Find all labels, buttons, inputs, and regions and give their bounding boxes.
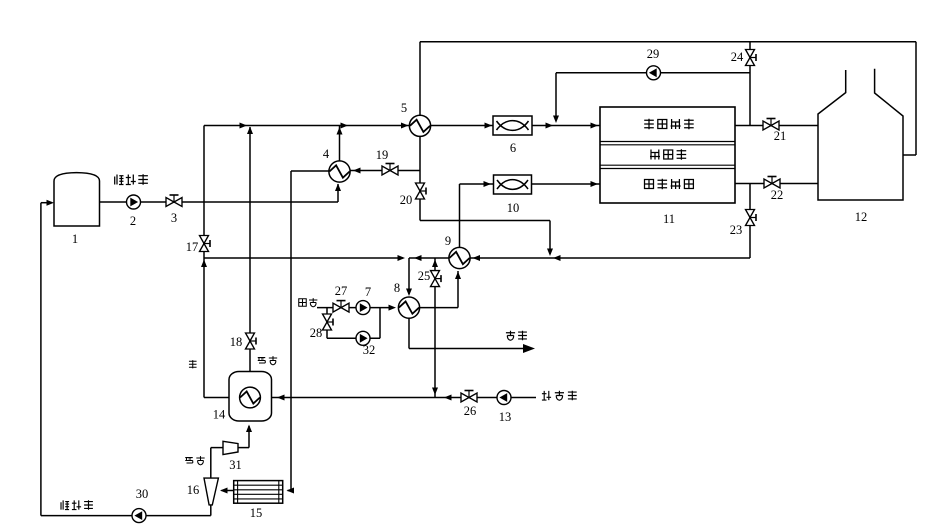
label 27 bbox=[335, 284, 348, 298]
svg-text:1: 1 bbox=[72, 232, 78, 246]
label air bbox=[299, 298, 318, 307]
wire bbox=[238, 447, 249, 449]
heat exchanger 9 bbox=[449, 247, 470, 268]
pump 29 bbox=[647, 66, 661, 80]
wire bbox=[749, 184, 751, 259]
wire bbox=[547, 221, 553, 257]
wire bbox=[337, 126, 343, 161]
heat exchanger in tank 14 bbox=[240, 387, 261, 408]
valve 22 bbox=[764, 177, 780, 189]
svg-text:26: 26 bbox=[464, 404, 477, 418]
valve 17 bbox=[200, 236, 211, 252]
svg-text:24: 24 bbox=[731, 50, 744, 64]
label fuel-electrode bbox=[644, 119, 694, 129]
wire bbox=[204, 255, 405, 261]
arrow bbox=[389, 305, 397, 311]
label 5 bbox=[401, 101, 407, 115]
svg-text:14: 14 bbox=[213, 408, 226, 422]
valve 25 bbox=[431, 271, 442, 287]
wire bbox=[220, 488, 234, 494]
arrow bbox=[341, 123, 349, 129]
label 23 bbox=[730, 223, 743, 237]
label 9 bbox=[445, 234, 451, 248]
wire bbox=[41, 200, 54, 206]
svg-text:22: 22 bbox=[771, 188, 784, 202]
wire bbox=[335, 184, 341, 203]
svg-text:21: 21 bbox=[774, 129, 787, 143]
svg-text:32: 32 bbox=[363, 343, 376, 357]
arrow bbox=[591, 181, 599, 187]
label 31 bbox=[229, 458, 242, 472]
valve 3 bbox=[166, 195, 182, 207]
pump 30 bbox=[132, 509, 146, 523]
fuel cell 11 bbox=[600, 107, 735, 203]
svg-text:25: 25 bbox=[418, 269, 431, 283]
humidifier 10 bbox=[494, 175, 532, 194]
valve 23 bbox=[746, 210, 757, 226]
valve 20 bbox=[416, 183, 427, 199]
wire bbox=[419, 271, 461, 308]
label 25 bbox=[418, 269, 431, 283]
label circulating-water-top bbox=[115, 174, 148, 184]
wire bbox=[210, 505, 212, 516]
wire bbox=[419, 42, 421, 115]
heat exchanger 8 bbox=[398, 297, 419, 318]
wire bbox=[735, 183, 818, 185]
heat exchanger 5 bbox=[409, 115, 430, 136]
arrow bbox=[473, 255, 481, 261]
wire bbox=[735, 125, 818, 127]
arrow bbox=[401, 123, 409, 129]
label 16 bbox=[187, 483, 200, 497]
wire bbox=[532, 183, 601, 185]
svg-text:29: 29 bbox=[647, 47, 660, 61]
compressor 31 bbox=[223, 441, 238, 454]
arrow bbox=[240, 123, 248, 129]
label 18 bbox=[230, 335, 243, 349]
label 15 bbox=[250, 506, 263, 520]
label exhaust bbox=[506, 331, 527, 341]
svg-text:17: 17 bbox=[186, 240, 199, 254]
wire bbox=[419, 137, 421, 221]
label 17 bbox=[186, 240, 199, 254]
pump 2 bbox=[127, 195, 141, 209]
hydrogen tank 14 bbox=[229, 372, 272, 422]
svg-text:19: 19 bbox=[376, 148, 389, 162]
wire bbox=[420, 41, 916, 43]
pump 32 bbox=[356, 331, 370, 345]
svg-text:10: 10 bbox=[507, 201, 520, 215]
label 30 bbox=[136, 487, 149, 501]
wire bbox=[420, 220, 550, 222]
wire bbox=[290, 171, 292, 491]
svg-text:15: 15 bbox=[250, 506, 263, 520]
wire bbox=[326, 308, 328, 339]
wire bbox=[408, 318, 410, 349]
arrow bbox=[432, 388, 438, 396]
label 22 bbox=[771, 188, 784, 202]
label air-electrode bbox=[645, 179, 694, 189]
wire bbox=[204, 397, 229, 399]
wire bbox=[210, 448, 212, 479]
wire bbox=[749, 42, 751, 126]
svg-text:20: 20 bbox=[400, 193, 413, 207]
wire bbox=[327, 337, 380, 339]
tank 1 bbox=[54, 173, 100, 226]
wire bbox=[409, 257, 750, 259]
label 24 bbox=[731, 50, 744, 64]
label 13 bbox=[499, 410, 512, 424]
label electrolyte bbox=[650, 149, 686, 159]
arrow bbox=[277, 395, 285, 401]
wire bbox=[204, 125, 600, 127]
label 32 bbox=[363, 343, 376, 357]
wire bbox=[434, 258, 436, 398]
svg-text:2: 2 bbox=[130, 214, 136, 228]
label hydrogen-bottom bbox=[185, 456, 204, 465]
label 12 bbox=[855, 210, 868, 224]
wire bbox=[247, 127, 253, 372]
label 10 bbox=[507, 201, 520, 215]
svg-text:4: 4 bbox=[323, 147, 330, 161]
svg-text:5: 5 bbox=[401, 101, 407, 115]
arrow bbox=[485, 123, 493, 129]
label 3 bbox=[171, 211, 177, 225]
label 29 bbox=[647, 47, 660, 61]
arrow bbox=[444, 395, 452, 401]
svg-text:16: 16 bbox=[187, 483, 200, 497]
valve 19 bbox=[382, 164, 398, 176]
label makeup-water bbox=[542, 391, 577, 401]
label 7 bbox=[365, 285, 371, 299]
label hydrogen-top bbox=[258, 356, 277, 365]
svg-text:28: 28 bbox=[310, 326, 323, 340]
label 4 bbox=[323, 147, 330, 161]
wire bbox=[406, 258, 412, 296]
wire bbox=[100, 201, 339, 203]
label 6 bbox=[510, 141, 516, 155]
wire bbox=[556, 72, 750, 74]
svg-text:7: 7 bbox=[365, 285, 371, 299]
wire bbox=[40, 203, 42, 516]
svg-text:8: 8 bbox=[394, 281, 400, 295]
svg-text:18: 18 bbox=[230, 335, 243, 349]
valve 18 bbox=[246, 333, 257, 349]
wire bbox=[317, 307, 393, 309]
separator 16 bbox=[204, 478, 218, 505]
wire bbox=[246, 425, 252, 448]
wire bbox=[41, 515, 211, 517]
wire bbox=[379, 308, 381, 339]
label 28 bbox=[310, 326, 323, 340]
label water bbox=[189, 360, 197, 368]
svg-text:23: 23 bbox=[730, 223, 743, 237]
svg-text:13: 13 bbox=[499, 410, 512, 424]
svg-text:31: 31 bbox=[229, 458, 242, 472]
arrow bbox=[201, 260, 207, 268]
label 21 bbox=[774, 129, 787, 143]
valve 26 bbox=[461, 391, 477, 403]
wire bbox=[903, 154, 916, 156]
svg-text:11: 11 bbox=[663, 212, 675, 226]
label 8 bbox=[394, 281, 400, 295]
label circulating-water-bottom bbox=[61, 500, 93, 510]
label 11 bbox=[663, 212, 675, 226]
svg-text:30: 30 bbox=[136, 487, 149, 501]
valve 27 bbox=[333, 301, 349, 313]
pump 13 bbox=[497, 391, 511, 405]
svg-text:12: 12 bbox=[855, 210, 868, 224]
wire bbox=[272, 397, 536, 399]
wire bbox=[291, 170, 329, 172]
combustor 12 bbox=[818, 69, 903, 200]
svg-text:3: 3 bbox=[171, 211, 177, 225]
label 20 bbox=[400, 193, 413, 207]
wire bbox=[211, 447, 223, 449]
wire bbox=[350, 168, 420, 174]
arrow bbox=[484, 181, 492, 187]
arrow bbox=[553, 255, 561, 261]
label 2 bbox=[130, 214, 136, 228]
label 1 bbox=[72, 232, 78, 246]
wire bbox=[459, 184, 461, 248]
arrow bbox=[432, 260, 438, 268]
wire bbox=[203, 126, 205, 398]
arrow bbox=[591, 123, 599, 129]
label 26 bbox=[464, 404, 477, 418]
arrow bbox=[523, 344, 535, 353]
valve 28 bbox=[323, 314, 334, 330]
svg-text:9: 9 bbox=[445, 234, 451, 248]
arrow bbox=[546, 123, 554, 129]
cooler 15 bbox=[234, 481, 283, 504]
valve 21 bbox=[763, 119, 779, 131]
wire bbox=[460, 183, 494, 185]
svg-text:27: 27 bbox=[335, 284, 348, 298]
humidifier 6 bbox=[493, 116, 532, 135]
wire bbox=[287, 488, 295, 494]
label 14 bbox=[213, 408, 226, 422]
arrow bbox=[414, 255, 422, 261]
svg-text:6: 6 bbox=[510, 141, 516, 155]
pump 7 bbox=[356, 301, 370, 315]
valve 24 bbox=[746, 50, 757, 66]
heat exchanger 4 bbox=[329, 161, 350, 182]
wire bbox=[915, 42, 917, 155]
wire bbox=[409, 348, 528, 350]
label 19 bbox=[376, 148, 389, 162]
wire bbox=[553, 73, 559, 123]
